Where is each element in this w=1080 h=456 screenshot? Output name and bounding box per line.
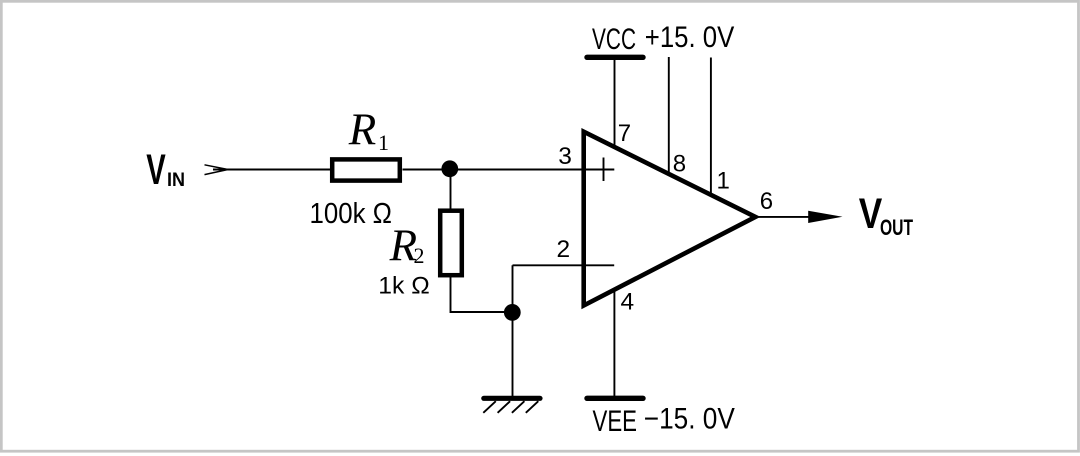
svg-text:1: 1 xyxy=(717,167,730,194)
svg-text:V: V xyxy=(146,146,166,194)
svg-text:7: 7 xyxy=(618,120,631,147)
svg-text:R: R xyxy=(348,104,377,154)
svg-text:V: V xyxy=(859,190,883,238)
svg-text:OUT: OUT xyxy=(880,215,913,240)
svg-text:VCC: VCC xyxy=(592,23,636,56)
svg-text:2: 2 xyxy=(414,243,425,268)
svg-text:VEE: VEE xyxy=(593,405,638,438)
svg-text:6: 6 xyxy=(760,188,773,215)
svg-text:1k Ω: 1k Ω xyxy=(378,272,430,299)
svg-text:4: 4 xyxy=(621,289,635,316)
svg-text:8: 8 xyxy=(673,150,686,177)
svg-text:100k Ω: 100k Ω xyxy=(310,198,393,230)
svg-text:−15. 0V: −15. 0V xyxy=(644,403,735,436)
svg-text:1: 1 xyxy=(378,130,389,155)
svg-text:IN: IN xyxy=(167,170,185,191)
svg-text:2: 2 xyxy=(557,236,571,263)
svg-text:3: 3 xyxy=(558,143,572,170)
svg-text:+15. 0V: +15. 0V xyxy=(645,21,735,54)
